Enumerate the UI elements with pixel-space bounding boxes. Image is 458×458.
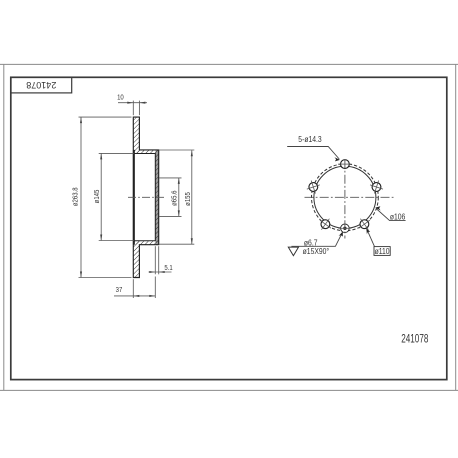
sheet left edge [3,64,5,390]
dim 65.6 ext lines [159,177,182,179]
dim 10 ext lines [132,101,134,116]
dim 5.1 line [149,271,172,273]
dim 10 line [118,102,147,104]
dim 145 ext lines [99,152,134,154]
set screw hole bottom ø6.7 [338,224,351,233]
dim 10 arrows [127,102,133,104]
drawing frame [11,77,447,379]
dim 37 arrows [133,295,139,297]
part outline [133,117,158,277]
svg-text:241078: 241078 [401,333,428,346]
centerline [128,196,166,198]
svg-text:ø110: ø110 [375,246,390,256]
dim 145 line [100,153,102,240]
dim 263.8 line [80,117,82,277]
sheet top edge [0,63,458,65]
svg-text:ø145: ø145 [94,189,102,203]
bolt hole top [338,160,352,169]
flange inner edge top [134,154,155,241]
countersink triangle [288,247,298,256]
hatch flange bottom [134,241,159,244]
svg-text:10: 10 [117,94,124,102]
hub circle solid ø106 [314,166,376,228]
bolt hole lower-left [316,215,335,234]
hatch friction ring bottom [134,241,140,277]
dim 65.6 arrows [178,178,180,184]
sheet right edge [455,64,457,390]
svg-text:5.1: 5.1 [164,264,173,272]
dim 155 ext lines [159,149,195,151]
bolt circle dashed ø110 [312,164,379,231]
dim 65.6 line [178,178,180,217]
svg-text:241078: 241078 [26,80,56,90]
hatch hat wall [156,150,159,244]
dim 5.1 ext lines [154,246,156,274]
svg-text:37: 37 [116,287,123,295]
hatch flange top [134,150,159,153]
title box top-left [11,77,72,93]
svg-text:ø155: ø155 [184,192,192,206]
label ø110 box [374,247,390,256]
dim 263.8 arrows [80,117,82,123]
disc face thick line [133,150,135,245]
svg-text:ø15X90°: ø15X90° [303,246,330,256]
dim 263.8 ext lines [79,116,132,118]
svg-text:5-ø14.3: 5-ø14.3 [298,134,321,144]
dim 37 ext lines [132,279,134,298]
bolt hole upper-left [305,178,322,195]
dim 155 line [191,150,193,244]
sheet bottom edge [0,389,458,391]
svg-text:ø65.6: ø65.6 [171,190,179,206]
dim 5.1 arrows [149,271,155,273]
svg-text:ø263.8: ø263.8 [72,187,80,206]
vertical centerline [344,160,346,239]
bolt hole upper-right [368,178,385,195]
bolt hole lower-right [355,215,374,234]
svg-text:ø106: ø106 [390,212,405,222]
hatch friction ring top [134,117,140,153]
dim 37 line [114,295,155,297]
dim 155 arrows [191,150,193,156]
horizontal centerline [305,196,394,198]
dim 145 arrows [100,153,102,159]
